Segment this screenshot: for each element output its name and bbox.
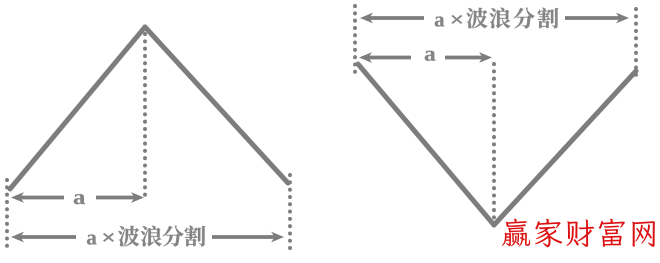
- left diagram: label a: [74, 194, 85, 204]
- red watermark 赢家财富网: [502, 219, 655, 248]
- right valley falling wave line: [358, 64, 494, 225]
- right diagram: label a × 波浪分割: [435, 8, 558, 29]
- left diagram: double arrow for distance a: [11, 192, 144, 203]
- right diagram: right dotted boundary line: [634, 9, 638, 77]
- right diagram: dotted rise line from valley bottom: [492, 64, 496, 218]
- left diagram: label a × 波浪分割: [87, 226, 205, 247]
- right diagram: left dotted boundary line: [353, 6, 357, 78]
- left peak falling wave line: [145, 27, 288, 183]
- right diagram: double arrow for distance a x wave-division: [360, 13, 629, 24]
- left diagram: left dotted boundary line: [5, 180, 9, 248]
- right valley rising wave line: [494, 71, 636, 225]
- left peak rising wave line: [10, 27, 145, 189]
- left diagram: double arrow for distance a x wave-division: [11, 232, 284, 243]
- left diagram: right dotted boundary line: [288, 175, 292, 248]
- right diagram: label a: [425, 51, 436, 61]
- left diagram: dotted drop line from peak: [143, 34, 147, 195]
- right diagram: double arrow for distance a: [359, 52, 492, 63]
